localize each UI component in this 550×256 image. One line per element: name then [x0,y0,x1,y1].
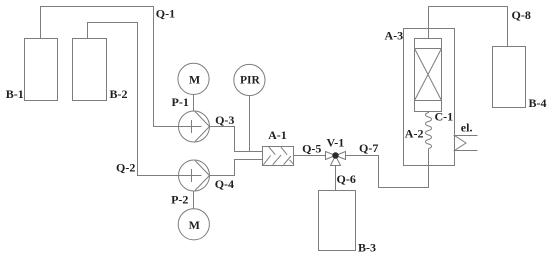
svg-text:B-1: B-1 [6,87,24,101]
svg-text:B-2: B-2 [110,87,128,101]
svg-text:M: M [189,73,200,87]
svg-text:Q-7: Q-7 [359,141,378,155]
svg-text:el.: el. [461,121,473,135]
svg-text:V-1: V-1 [327,136,345,150]
svg-text:B-4: B-4 [529,96,547,110]
svg-text:P-2: P-2 [171,193,188,207]
svg-text:PIR: PIR [240,74,261,86]
svg-text:Q-1: Q-1 [156,6,175,20]
svg-text:Q-3: Q-3 [215,113,234,127]
svg-text:C-1: C-1 [435,110,454,124]
svg-text:M: M [189,218,200,232]
svg-text:Q-8: Q-8 [512,8,531,22]
svg-text:P-1: P-1 [172,95,189,109]
svg-text:Q-5: Q-5 [302,142,321,156]
svg-text:A-2: A-2 [405,127,424,141]
svg-text:Q-4: Q-4 [215,177,234,191]
svg-text:B-3: B-3 [358,241,376,255]
svg-text:A-1: A-1 [268,128,287,142]
svg-text:Q-2: Q-2 [116,161,135,175]
svg-text:Q-6: Q-6 [337,172,356,186]
svg-text:A-3: A-3 [385,29,404,43]
